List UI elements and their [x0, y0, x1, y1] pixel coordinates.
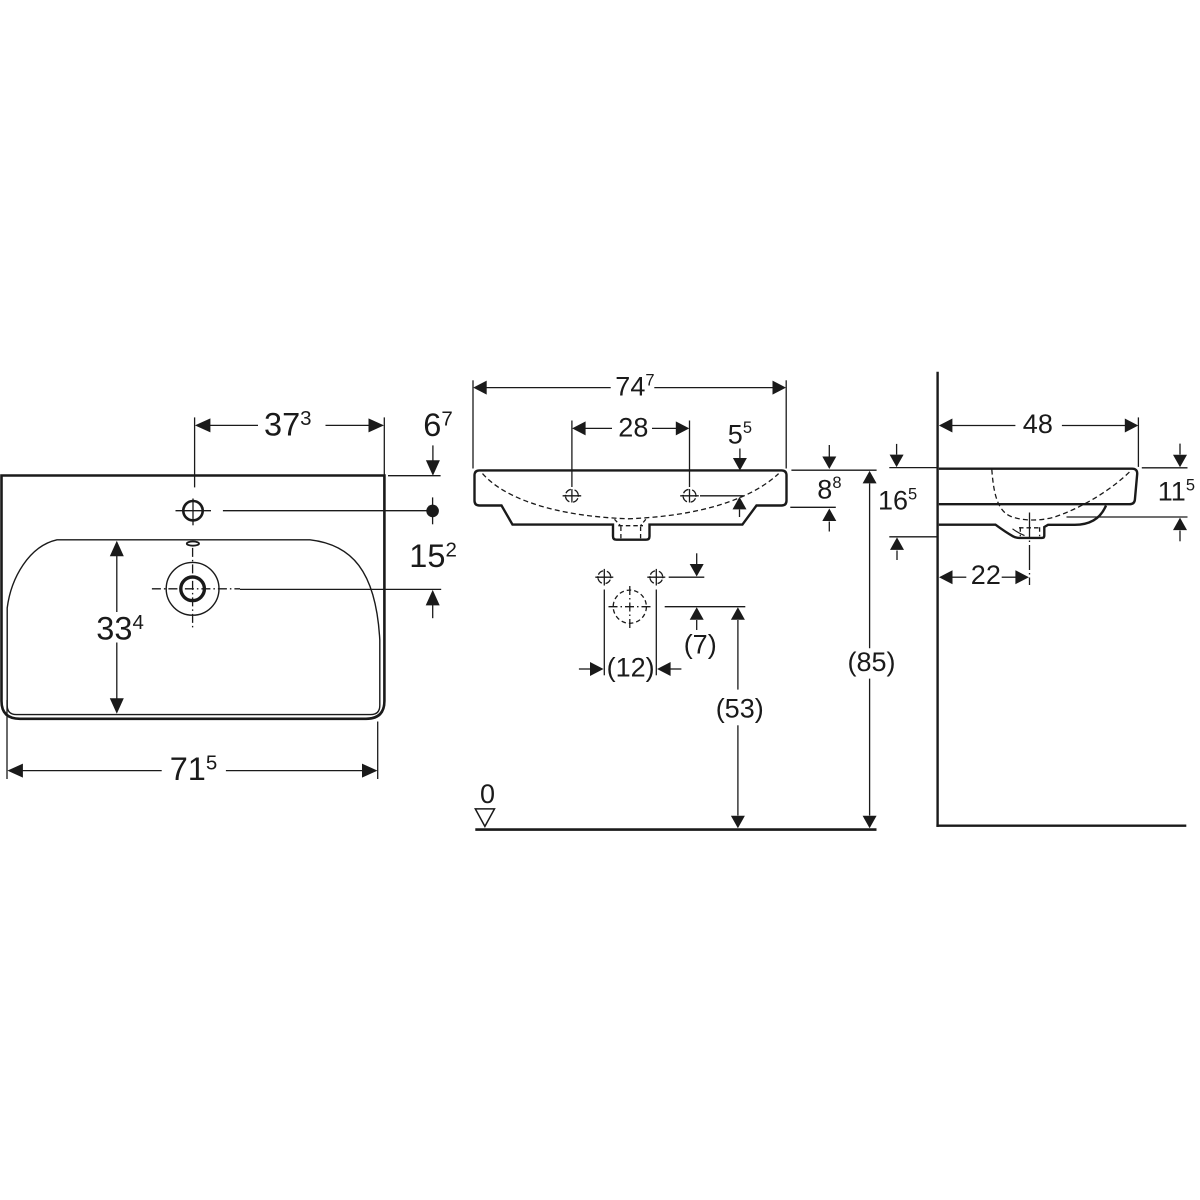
svg-text:22: 22 — [971, 560, 1001, 590]
svg-text:(85): (85) — [848, 647, 896, 677]
svg-text:(53): (53) — [716, 694, 764, 724]
svg-text:48: 48 — [1023, 409, 1053, 439]
svg-text:0: 0 — [480, 779, 495, 809]
svg-text:(7): (7) — [684, 630, 717, 660]
svg-text:28: 28 — [618, 413, 648, 443]
svg-text:(12): (12) — [607, 653, 655, 683]
